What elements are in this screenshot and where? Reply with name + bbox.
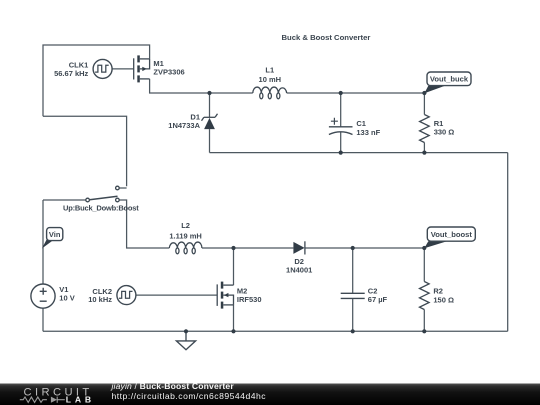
wire L1 right to Vout_buck node: [287, 92, 425, 94]
svg-text:330 Ω: 330 Ω: [434, 128, 455, 137]
wire D2 cathode to Vout_boost node: [305, 247, 424, 249]
net flag Vin: [42, 228, 63, 249]
svg-text:Vin: Vin: [49, 230, 61, 239]
svg-text:150 Ω: 150 Ω: [433, 295, 454, 304]
label M1 ZVP3306: [153, 59, 184, 76]
wire M2 source down to bottom rail: [233, 305, 235, 331]
wire R1 bottom: [423, 143, 425, 153]
wire V1 bottom to rail: [42, 308, 44, 331]
node dot C2 top: [351, 246, 355, 250]
node dot R2 bottom: [422, 329, 426, 333]
logo LAB text: [66, 395, 95, 405]
svg-text:56.67 kHz: 56.67 kHz: [54, 69, 88, 78]
wire switch pole from left rail: [43, 199, 86, 201]
svg-text:ZVP3306: ZVP3306: [153, 68, 184, 77]
clock source CLK2: [117, 286, 136, 305]
switch SPDT Up:Buck_Dowb:Boost: [86, 186, 119, 202]
net flag Vout_buck: [424, 72, 471, 93]
diode D2: [293, 241, 305, 254]
svg-text:133 nF: 133 nF: [356, 128, 380, 137]
wire M1 drain to buck node row: [150, 79, 253, 93]
svg-text:http://circuitlab.com/cn6c8954: http://circuitlab.com/cn6c89544d4hc: [112, 391, 267, 401]
node dot M2 source: [231, 329, 235, 333]
label R1 330 ohm: [434, 119, 455, 137]
label L2 1.119 mH: [169, 221, 202, 240]
label CLK1 value: [54, 61, 88, 78]
label D1 1N4733A: [168, 113, 200, 131]
label D2 1N4001: [286, 257, 312, 275]
footer author/title line: [111, 381, 267, 401]
node dot C1 bottom: [339, 151, 343, 155]
node dot buck switch node: [207, 91, 211, 95]
wire C1 bottom: [340, 132, 342, 153]
svg-text:Vout_boost: Vout_boost: [431, 230, 473, 239]
label M2 IRF530: [237, 286, 262, 303]
wire top-left loop from M1 source around to switch upper throw: [43, 45, 150, 116]
wire D1 top: [209, 93, 211, 117]
wire D1 bottom: [209, 129, 211, 153]
wire L2 right to D2 anode: [202, 247, 294, 249]
wire CLK2 to M2 gate: [136, 294, 217, 296]
label R2 150 ohm: [433, 287, 454, 305]
transistor M2 N-MOSFET: [217, 282, 233, 309]
svg-text:1N4001: 1N4001: [286, 266, 312, 275]
logo resistor-diode motif: [20, 397, 65, 403]
ground: [176, 331, 195, 349]
wire left rail from pole down to V1 top: [42, 200, 44, 284]
label V1 10 V: [59, 285, 74, 302]
svg-text:10 kHz: 10 kHz: [88, 295, 112, 304]
wire switch lower throw to L2: [119, 200, 169, 248]
zener diode D1: [202, 114, 218, 129]
wire M2 drain up to boost row: [233, 248, 235, 285]
wire R2 bottom: [423, 310, 425, 332]
svg-text:1N4733A: 1N4733A: [168, 121, 200, 130]
node dot C2 bottom: [351, 329, 355, 333]
clock source CLK1: [93, 59, 112, 78]
svg-text:Vout_buck: Vout_buck: [430, 75, 469, 84]
wire R2 top: [423, 248, 425, 282]
label switch: [63, 204, 139, 213]
wire left mid horizontal to switch column: [43, 116, 127, 186]
wire CLK1 to M1 gate: [112, 68, 134, 70]
svg-text:LAB: LAB: [66, 395, 95, 405]
label C2 67 uF: [368, 287, 388, 304]
resistor R2: [419, 282, 429, 310]
svg-text:IRF530: IRF530: [237, 295, 262, 304]
svg-text:10 V: 10 V: [59, 293, 74, 302]
svg-text:1.119 mH: 1.119 mH: [169, 231, 202, 240]
svg-text:Up:Buck_Dowb:Boost: Up:Buck_Dowb:Boost: [63, 204, 139, 213]
svg-text:jiayin / Buck-Boost Converter: jiayin / Buck-Boost Converter: [111, 381, 235, 391]
node dot Vout_buck: [422, 91, 426, 95]
node dot Vout_boost: [422, 246, 426, 250]
title Buck & Boost Converter: [282, 33, 371, 42]
wire C2 top: [352, 248, 354, 293]
wire C2 bottom: [352, 298, 354, 331]
wire boost bottom rail: [43, 330, 508, 332]
svg-text:C1: C1: [356, 119, 366, 128]
label C1 133 nF: [356, 119, 380, 137]
node dot C1 top: [339, 91, 343, 95]
label L1 10 mH: [259, 65, 282, 84]
inductor L2: [169, 242, 202, 254]
node dot R1 bottom: [422, 151, 426, 155]
node dot ground junction: [184, 329, 188, 333]
svg-text:10 mH: 10 mH: [259, 75, 282, 84]
wire buck bottom rail: [210, 152, 508, 154]
svg-text:D2: D2: [294, 257, 304, 266]
net flag Vout_boost: [424, 227, 475, 248]
voltage source V1: [31, 284, 55, 308]
inductor L1: [253, 87, 287, 99]
wire R1 top: [423, 93, 425, 115]
resistor R1: [420, 115, 430, 143]
svg-text:R2: R2: [433, 287, 443, 296]
node dot M2 drain: [231, 246, 235, 250]
label CLK2 10 kHz: [88, 287, 112, 304]
wire right rail connecting buck and boost grounds: [507, 153, 509, 332]
wire switch upper throw stub: [119, 187, 127, 189]
svg-text:L1: L1: [265, 65, 274, 74]
wire C1 top: [340, 93, 342, 127]
svg-text:67 µF: 67 µF: [368, 295, 388, 304]
svg-text:L2: L2: [181, 221, 190, 230]
capacitor C2: [341, 293, 365, 298]
capacitor C1 polarized: [329, 118, 353, 135]
svg-text:Buck & Boost Converter: Buck & Boost Converter: [282, 33, 371, 42]
logo CIRCUIT text: [24, 386, 93, 398]
transistor M1 P-MOSFET: [134, 55, 150, 82]
